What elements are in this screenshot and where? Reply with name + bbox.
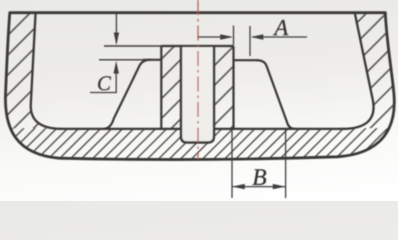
boss left side bbox=[160, 46, 162, 129]
dim C down arrowhead bbox=[114, 33, 119, 46]
dim A dimension line left part bbox=[198, 36, 231, 38]
extension of boss top line (dim C upper) bbox=[104, 45, 161, 47]
left ledge machined surface line bbox=[143, 59, 161, 61]
label A bbox=[273, 20, 288, 35]
boss top cast surface line bbox=[161, 45, 233, 47]
dim C upper arrow line bbox=[115, 14, 117, 44]
dim B left extension line bbox=[231, 129, 233, 198]
central hole white cutout bbox=[181, 45, 214, 143]
vessel inner contour right wall bbox=[342, 14, 374, 129]
hatched bottom band section (dense, below floor level) bbox=[0, 128, 398, 168]
hatched boss right leg section bbox=[214, 46, 234, 129]
boss right side bbox=[232, 46, 234, 129]
label B bbox=[252, 169, 266, 185]
right ledge surface line bbox=[234, 59, 259, 61]
dim A left arrowhead bbox=[220, 34, 233, 39]
cavity floor line left of hole bbox=[60, 128, 181, 130]
vessel outer contour bbox=[5, 13, 394, 160]
label C bbox=[98, 76, 111, 90]
hatched boss left leg section bbox=[161, 46, 181, 129]
dim A left extension line bbox=[233, 26, 235, 46]
dim C lower arrow tail bbox=[115, 72, 117, 93]
dim C up arrowhead bbox=[114, 61, 119, 74]
dim A right arrowhead bbox=[251, 34, 264, 39]
dim B right extension line bbox=[285, 129, 287, 198]
dim A right extension line bbox=[249, 26, 251, 56]
cavity floor line right of hole bbox=[214, 128, 344, 130]
dim B right arrowhead bbox=[273, 184, 286, 189]
central hole outline bbox=[181, 46, 214, 143]
dim C label shelf bbox=[90, 92, 117, 94]
hatched wall section (sparse, above floor level) bbox=[0, 0, 398, 168]
red centerline bbox=[197, 0, 199, 159]
right draft slant of hub bbox=[257, 60, 296, 129]
dim A leader line right part bbox=[253, 36, 308, 38]
vessel inner contour left wall bbox=[31, 14, 62, 129]
dim B dimension line bbox=[232, 186, 286, 188]
extension of ledge line (dim C lower) bbox=[99, 59, 143, 61]
left draft slant of hub bbox=[103, 60, 151, 129]
dim B left arrowhead bbox=[232, 184, 245, 189]
